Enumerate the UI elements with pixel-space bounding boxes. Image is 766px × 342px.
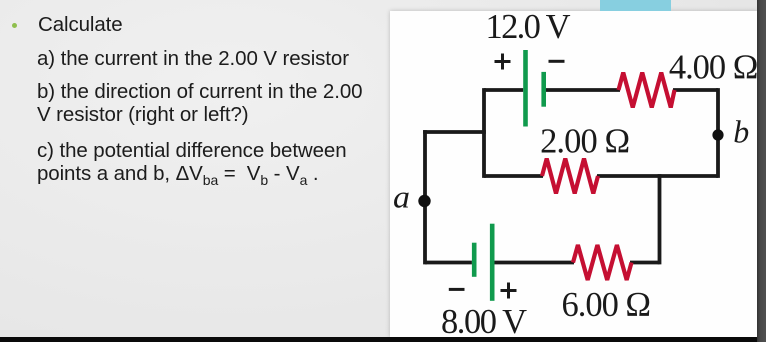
svg-text:a: a xyxy=(393,179,410,215)
battery V1 12.0 V plates xyxy=(523,50,546,127)
wire middle-drop vertical xyxy=(658,176,662,263)
svg-text:b: b xyxy=(733,114,749,150)
right dark strip xyxy=(757,0,766,342)
battery V2 plus sign xyxy=(501,283,517,299)
label 4.00 ohm xyxy=(669,49,759,87)
wire branch horizontal xyxy=(425,130,484,134)
text: Calculate xyxy=(38,13,123,37)
battery V1 plus sign xyxy=(495,54,511,70)
label 2.00 ohm xyxy=(540,122,630,160)
cyan accent bar xyxy=(600,0,671,11)
svg-text:4.00 Ω: 4.00 Ω xyxy=(669,49,759,87)
svg-text:6.00 Ω: 6.00 Ω xyxy=(562,286,652,324)
wire top-right segment xyxy=(673,88,718,92)
svg-text:8.00 V: 8.00 V xyxy=(441,303,527,341)
wire bottom-right segment xyxy=(630,261,660,265)
battery V2 minus sign xyxy=(449,288,465,291)
text: item c xyxy=(37,139,347,193)
text: item b xyxy=(37,80,362,127)
wire bottom-middle segment xyxy=(495,261,575,265)
bullet point xyxy=(12,23,17,28)
wire middle-right segment xyxy=(597,174,718,178)
battery V2 8.00 V plates xyxy=(472,224,495,301)
battery V1 minus sign xyxy=(549,60,565,63)
resistor R1 4.00 ohm xyxy=(619,73,675,108)
label 8.00 V xyxy=(441,303,527,341)
label 6.00 ohm xyxy=(562,286,652,324)
resistor R3 6.00 ohm xyxy=(573,245,632,280)
wire inner-left vertical xyxy=(482,90,486,176)
svg-text:12.0 V: 12.0 V xyxy=(486,8,571,46)
label 12.0 V xyxy=(486,8,571,46)
resistor R2 2.00 ohm xyxy=(542,159,598,194)
wire top-middle segment xyxy=(545,88,620,92)
node a xyxy=(393,179,431,215)
svg-text:2.00 Ω: 2.00 Ω xyxy=(540,122,630,160)
bottom black bar xyxy=(0,337,766,342)
wire right vertical xyxy=(716,90,720,176)
slide white panel xyxy=(390,11,758,337)
wire middle-left segment xyxy=(484,174,543,178)
node b xyxy=(712,114,749,150)
wire bottom-left segment xyxy=(425,261,472,265)
wire left outer vertical xyxy=(423,132,427,263)
text: item a xyxy=(37,47,349,71)
wire top-left segment xyxy=(484,88,523,92)
